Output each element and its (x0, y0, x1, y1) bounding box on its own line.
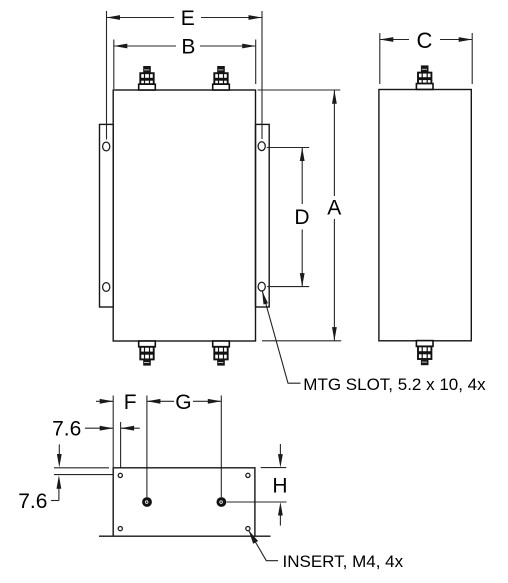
svg-text:E: E (181, 7, 195, 30)
svg-text:D: D (294, 206, 309, 229)
svg-text:INSERT, M4, 4x: INSERT, M4, 4x (283, 552, 404, 571)
svg-text:7.6: 7.6 (18, 490, 47, 513)
svg-text:A: A (327, 197, 341, 220)
svg-text:G: G (175, 391, 191, 414)
svg-text:7.6: 7.6 (52, 418, 81, 441)
svg-text:H: H (272, 475, 287, 498)
svg-text:C: C (417, 28, 433, 53)
svg-text:MTG SLOT, 5.2 x 10, 4x: MTG SLOT, 5.2 x 10, 4x (303, 375, 486, 394)
svg-text:B: B (181, 35, 195, 58)
svg-text:F: F (124, 391, 137, 414)
